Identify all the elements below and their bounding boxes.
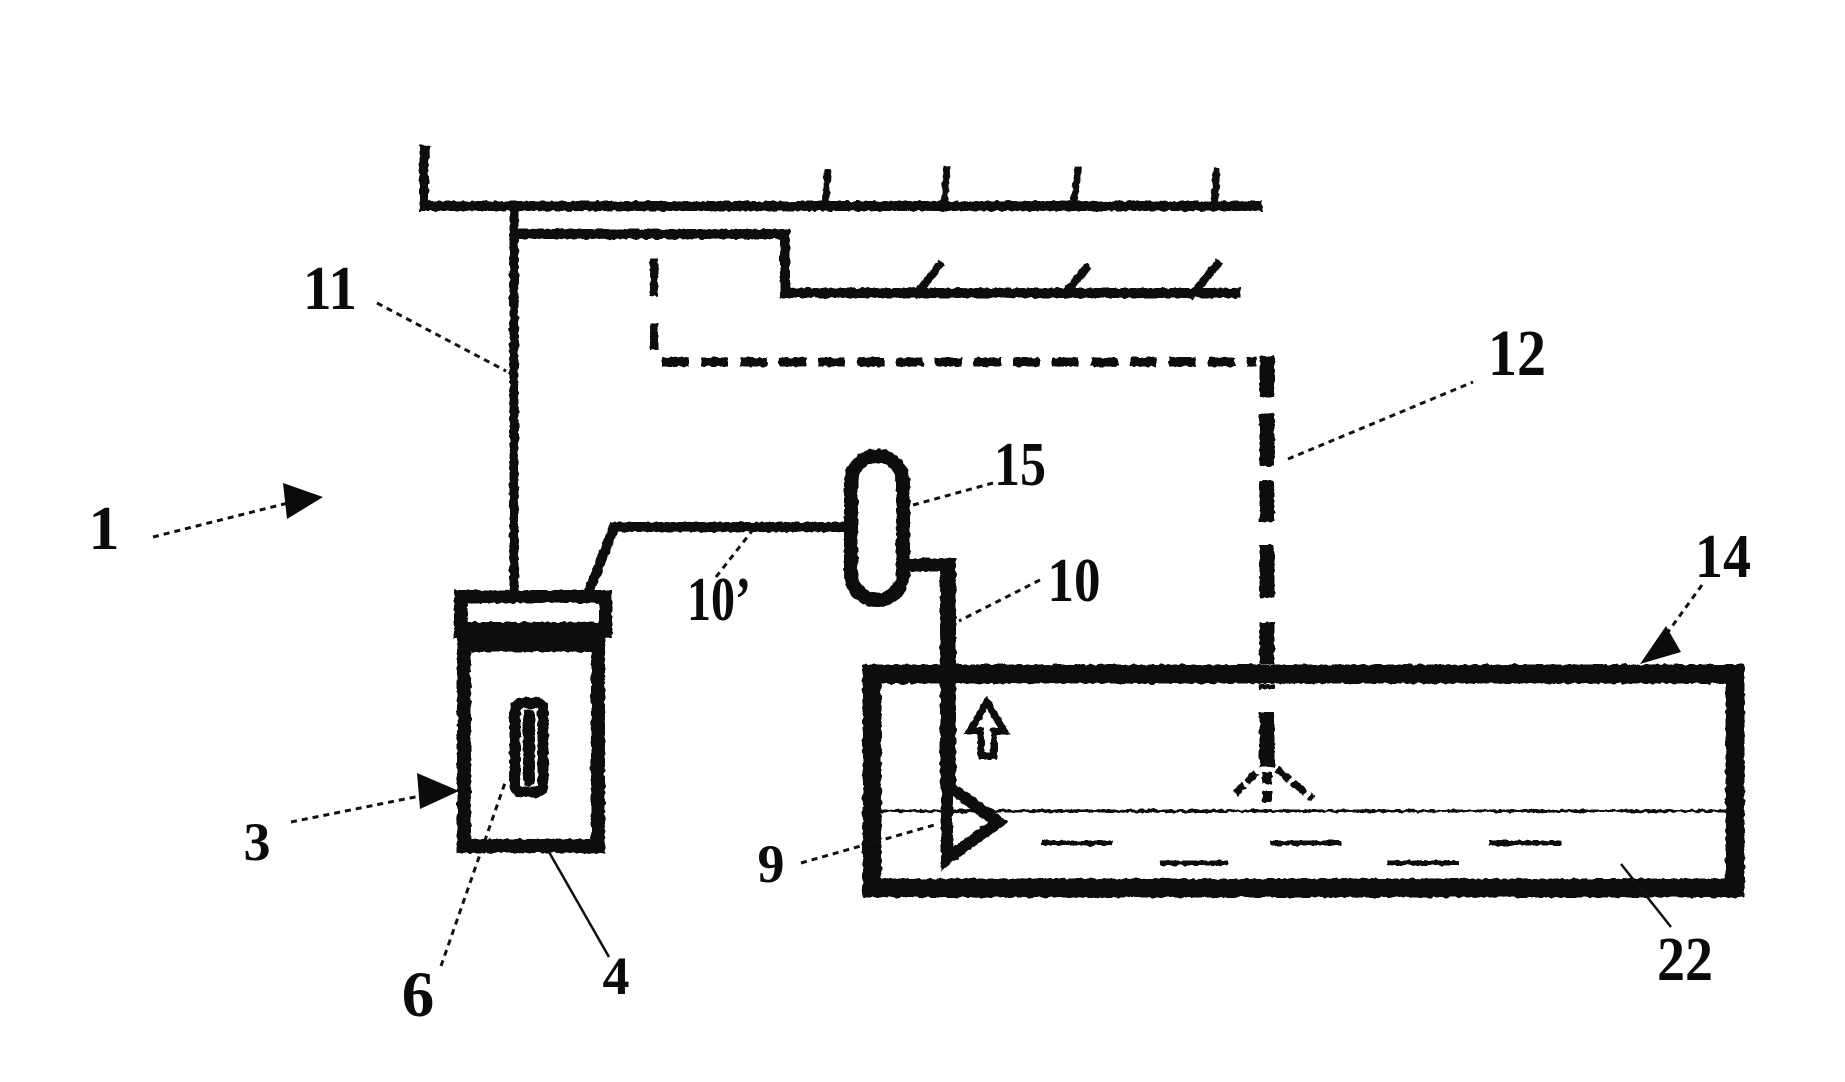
leader 14 <box>1668 585 1702 632</box>
boiler 3 body <box>464 645 598 846</box>
leader 12 <box>1288 382 1473 459</box>
leader 3 <box>291 795 425 822</box>
heater 6 inner bar <box>523 709 535 786</box>
svg-text:10: 10 <box>1048 547 1101 615</box>
spray outlet right jet <box>1277 769 1313 799</box>
spray outlet dashes <box>1262 772 1272 808</box>
leader 10' <box>716 531 752 577</box>
leader 4 <box>549 852 609 957</box>
pilot line 12 horizontal dashed <box>662 358 1256 367</box>
liquid dash r2b <box>1387 861 1459 866</box>
hatch mark 2 <box>1062 265 1089 297</box>
ceiling step line <box>511 234 1241 293</box>
flow up arrow <box>970 702 1004 756</box>
pipe 10 vertical <box>940 559 956 700</box>
arrowhead 3 <box>417 773 459 809</box>
ceiling tick 1 <box>825 169 828 206</box>
ceiling tick 2 <box>944 166 947 209</box>
svg-text:10’: 10’ <box>687 566 751 634</box>
arrowhead 14 <box>1640 626 1681 664</box>
pilot line 12 vertical dashed upper <box>1260 356 1275 664</box>
leader 9 <box>801 824 938 863</box>
liquid dash r1a <box>1041 841 1112 846</box>
spray outlet left jet <box>1232 773 1256 797</box>
wire 11 vertical <box>510 206 519 594</box>
svg-text:14: 14 <box>1695 523 1751 591</box>
boiler 3 lid black <box>454 590 612 638</box>
leader 11 <box>377 303 506 371</box>
ceiling top line <box>420 201 1262 211</box>
hatch mark 3 <box>1190 261 1220 297</box>
liquid dash r1b <box>1271 841 1341 846</box>
ceiling left end tick <box>424 150 430 206</box>
ceiling tick 3 <box>1073 167 1078 211</box>
svg-text:3: 3 <box>244 812 271 872</box>
svg-text:9: 9 <box>758 834 785 894</box>
leader 15 <box>913 483 993 505</box>
leader 1 <box>153 502 292 537</box>
wire 10' <box>588 527 845 594</box>
liquid dash r1c <box>1489 841 1562 846</box>
leader 10 <box>959 580 1040 621</box>
svg-text:12: 12 <box>1488 317 1546 390</box>
liquid level line <box>881 810 1726 813</box>
pilot line 12 upper vertical dashes <box>650 259 658 350</box>
arrowhead 1 <box>283 483 323 519</box>
pilot line 12 vertical dashed inside tank <box>1260 684 1275 767</box>
heater 6 outer <box>515 703 543 792</box>
leader 6 <box>441 780 506 966</box>
leader 22 <box>1621 864 1671 927</box>
hatch mark 1 <box>914 262 942 297</box>
liquid dash r2a <box>1160 861 1228 866</box>
svg-text:22: 22 <box>1657 926 1713 994</box>
svg-text:4: 4 <box>603 946 630 1006</box>
ceiling tick 4 <box>1214 168 1217 206</box>
pipe 10 inside tank <box>940 664 956 786</box>
svg-text:1: 1 <box>89 495 120 563</box>
nozzle 9 triangle <box>947 785 998 859</box>
tank 14 <box>872 674 1735 888</box>
pipe between 15 and 10 <box>903 559 951 572</box>
svg-text:15: 15 <box>994 431 1046 499</box>
svg-text:11: 11 <box>303 255 357 323</box>
svg-text:6: 6 <box>402 959 435 1031</box>
boiler 3 lid slot <box>468 603 599 622</box>
valve 15 body <box>851 456 903 600</box>
